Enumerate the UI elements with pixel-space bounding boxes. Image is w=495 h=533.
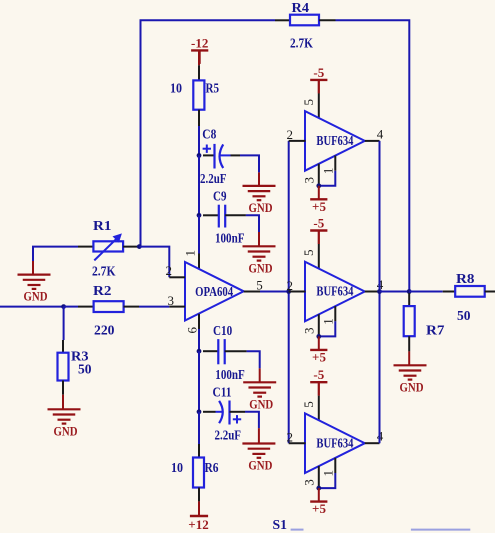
resistor R2: [93, 283, 124, 337]
wire C9 node to op-amp pin 1: [198, 215, 200, 269]
power +12: [188, 501, 208, 532]
pin 5 lead U3 middle: [318, 231, 320, 269]
pin number 4 U4 bottom: [377, 429, 384, 444]
svg-text:2.7K: 2.7K: [290, 36, 313, 51]
svg-text:100nF: 100nF: [215, 230, 245, 245]
pin 5 lead U2 top: [318, 80, 320, 118]
node pin3 junction U4 bottom: [316, 486, 321, 491]
wire C8 node to C9 node: [198, 155, 200, 215]
wire C11 to GND: [230, 412, 259, 444]
resistor R4: [290, 0, 319, 51]
svg-text:1: 1: [182, 250, 197, 257]
pin 3 lead U2 top: [318, 164, 320, 186]
wire C10 to GND: [247, 351, 260, 382]
svg-text:R6: R6: [205, 460, 219, 475]
node output bus junction: [377, 289, 382, 294]
resistor R7: [404, 306, 445, 337]
ground GND R1: [18, 261, 51, 304]
svg-text:BUF634: BUF634: [316, 284, 353, 299]
svg-text:GND: GND: [400, 379, 424, 394]
wire input net from left edge: [0, 306, 64, 308]
wire S1 stub left: [291, 529, 304, 531]
svg-text:2: 2: [287, 430, 294, 445]
svg-text:3: 3: [301, 479, 316, 486]
svg-text:R2: R2: [93, 283, 112, 298]
svg-text:2: 2: [287, 127, 294, 142]
wire R5 top pin lead: [198, 51, 200, 80]
pin number 5 op-amp: [256, 277, 263, 292]
pin number 3 op-amp: [168, 293, 175, 308]
wire R8 left pin lead: [443, 291, 456, 293]
svg-text:GND: GND: [249, 260, 273, 275]
svg-text:GND: GND: [24, 289, 48, 304]
svg-text:BUF634: BUF634: [316, 133, 353, 148]
pin 2 lead U4 bottom: [289, 442, 306, 444]
pin 2 lead U3 middle: [289, 291, 306, 293]
wire R1 right pin lead: [123, 246, 139, 248]
switch S1 label: [273, 517, 288, 532]
svg-text:6: 6: [184, 326, 199, 333]
svg-text:R7: R7: [426, 322, 445, 337]
pin number 1 U4 bottom: [321, 470, 336, 477]
capacitor C11: [203, 385, 241, 443]
pin 2 lead U2 top: [289, 140, 306, 142]
pin number 2 U3 middle: [287, 278, 294, 293]
svg-text:+5: +5: [312, 501, 326, 516]
pin 4 lead U3 middle: [365, 291, 380, 293]
svg-text:+5: +5: [312, 199, 326, 214]
wire feedback net right down to output node: [336, 20, 410, 291]
svg-text:1: 1: [321, 318, 336, 325]
pin number 4 U3 middle: [377, 277, 384, 292]
svg-text:10: 10: [170, 80, 182, 95]
pin number 4 U2 top: [377, 126, 384, 141]
node A R1/feedback junction: [137, 244, 142, 249]
svg-text:-5: -5: [313, 65, 324, 80]
svg-text:2: 2: [287, 278, 294, 293]
node C10 junction: [197, 349, 202, 354]
svg-text:2: 2: [166, 263, 173, 278]
wire buffer input bus: [288, 141, 290, 443]
svg-text:GND: GND: [249, 396, 273, 411]
wire R2 to op-amp pin 3: [139, 306, 169, 308]
power -5 of U4 bottom: [310, 367, 327, 396]
svg-text:C10: C10: [213, 323, 232, 338]
wire R3 bottom pin lead: [62, 381, 64, 410]
wire node to R8: [409, 291, 443, 293]
svg-text:220: 220: [94, 322, 115, 337]
node C11 junction: [197, 409, 202, 414]
wire R4 right pin lead: [319, 19, 336, 21]
resistor R6: [171, 458, 219, 488]
pin 2 op-amp lead: [169, 276, 185, 278]
buffer U2 top BUF634: [305, 111, 365, 171]
wire pin 1 to pin 3 U4 bottom: [319, 473, 336, 488]
pin number 1 op-amp: [182, 250, 197, 257]
svg-text:C11: C11: [213, 385, 232, 400]
ground GND C9: [243, 246, 276, 275]
node pin3 junction U3 middle: [316, 334, 321, 339]
wire R7 top pin lead: [408, 293, 410, 306]
svg-text:GND: GND: [54, 423, 78, 438]
svg-text:R5: R5: [206, 80, 220, 95]
resistor R5: [170, 80, 219, 109]
node pin3 junction U2 top: [316, 183, 321, 188]
wire buffer output bus: [379, 141, 381, 443]
pin 1 lead U4 bottom: [334, 458, 336, 473]
node input bus junction: [286, 289, 291, 294]
svg-text:2.2uF: 2.2uF: [215, 427, 242, 442]
wire R6 bottom pin lead: [198, 488, 200, 502]
svg-text:50: 50: [78, 362, 92, 377]
wire node B down to R3: [62, 307, 65, 353]
pin 1 lead U3 middle: [334, 306, 336, 321]
ground GND R7: [394, 365, 427, 394]
svg-text:BUF634: BUF634: [316, 435, 353, 450]
svg-text:1: 1: [321, 168, 336, 175]
capacitor C9: [203, 188, 246, 245]
svg-text:GND: GND: [248, 458, 272, 473]
svg-text:3: 3: [301, 328, 316, 335]
node output at R7: [407, 289, 412, 294]
svg-text:-12: -12: [191, 35, 208, 50]
svg-text:3: 3: [301, 177, 316, 184]
pin 3 lead U4 bottom: [318, 466, 320, 488]
pin 3 lead U3 middle: [318, 314, 320, 336]
svg-text:R4: R4: [292, 0, 310, 15]
ground GND C11: [242, 444, 275, 473]
pin 5 lead U4 bottom: [318, 382, 320, 420]
svg-text:R1: R1: [93, 218, 112, 233]
svg-text:100nF: 100nF: [215, 367, 245, 382]
pin number 2 op-amp: [166, 263, 173, 278]
pin 6 op-amp lead: [198, 314, 200, 351]
node C8 junction: [197, 153, 202, 158]
svg-text:R8: R8: [456, 271, 475, 286]
wire C8 to GND: [231, 155, 260, 186]
svg-text:1: 1: [321, 470, 336, 477]
pin number 5 U2 top: [301, 99, 316, 106]
pin 4 lead U2 top: [365, 140, 380, 142]
wire R7 bottom pin lead: [408, 336, 410, 365]
svg-text:5: 5: [301, 401, 316, 408]
power -12: [191, 35, 208, 64]
node B input junction: [61, 304, 66, 309]
buffer U4 bottom BUF634: [305, 413, 365, 473]
buffer U3 middle BUF634: [305, 262, 365, 322]
svg-text:OPA604: OPA604: [195, 284, 233, 299]
wire R2 right pin lead: [124, 306, 139, 308]
svg-text:C8: C8: [202, 127, 216, 142]
wire GND to R1: [33, 247, 78, 261]
ground GND C10: [243, 382, 276, 411]
svg-text:5: 5: [256, 277, 263, 292]
pin number 2 U2 top: [287, 127, 294, 142]
wire feedback net left/top from node A to R4: [141, 20, 276, 246]
wire R5 bottom pin lead: [198, 110, 200, 126]
pin 1 lead U2 top: [334, 156, 336, 171]
svg-text:S1: S1: [273, 517, 288, 532]
pin number 3 U2 top: [301, 177, 316, 184]
svg-text:+12: +12: [188, 517, 208, 532]
svg-text:3: 3: [168, 293, 175, 308]
pin number 1 U2 top: [321, 168, 336, 175]
wire pin 1 to pin 3 U2 top: [319, 171, 336, 186]
wire R5 to node C8: [198, 126, 200, 155]
pin number 2 U4 bottom: [287, 430, 294, 445]
power +5 of U2 top: [310, 186, 327, 214]
ground GND C8: [243, 186, 276, 215]
wire R2 left pin lead: [78, 306, 94, 308]
wire R8 right pin lead to edge: [485, 291, 495, 293]
svg-text:4: 4: [377, 126, 384, 141]
wire output bus to node: [380, 291, 410, 293]
svg-text:10: 10: [171, 460, 183, 475]
svg-text:GND: GND: [249, 200, 273, 215]
ground GND R3: [48, 409, 81, 438]
svg-text:2.2uF: 2.2uF: [200, 171, 227, 186]
wire C9 to GND: [246, 215, 259, 246]
power -5 of U2 top: [310, 65, 327, 94]
node C9 junction: [197, 213, 202, 218]
wire R4 left pin lead: [275, 19, 290, 21]
pin number 3 U4 bottom: [301, 479, 316, 486]
svg-text:50: 50: [457, 308, 471, 323]
svg-text:2.7K: 2.7K: [92, 263, 116, 278]
wire C10 node to C11 node: [198, 351, 200, 412]
wire op-amp output to buffer input bus: [260, 291, 289, 293]
resistor R3: [58, 349, 92, 381]
wire input to R2: [64, 306, 78, 308]
resistor R8: [455, 271, 485, 323]
pin number 6 op-amp: [184, 326, 199, 333]
wire pin 1 to pin 3 U3 middle: [319, 321, 336, 336]
pin number 3 U3 middle: [301, 328, 316, 335]
pin number 5 U3 middle: [301, 250, 316, 256]
op-amp U1 OPA604: [185, 262, 244, 321]
svg-text:-5: -5: [313, 367, 324, 382]
pin number 1 U3 middle: [321, 318, 336, 325]
wire node A to op-amp pin 2: [139, 247, 169, 278]
wire C11 node to R6: [198, 412, 200, 458]
pin 5 op-amp output lead: [244, 291, 260, 293]
svg-text:5: 5: [301, 99, 316, 106]
pin 3 op-amp lead: [169, 306, 185, 308]
pin number 5 U4 bottom: [301, 401, 316, 408]
power -5 of U3 middle: [310, 216, 327, 245]
power +5 of U3 middle: [310, 336, 327, 364]
svg-text:5: 5: [301, 250, 316, 256]
svg-text:+5: +5: [312, 350, 326, 365]
svg-text:-5: -5: [313, 216, 324, 231]
wire R1 left pin lead: [78, 246, 93, 248]
capacitor C10: [203, 323, 247, 382]
capacitor C8: [200, 127, 231, 187]
svg-text:C9: C9: [213, 188, 227, 203]
pin 4 lead U4 bottom: [365, 442, 380, 444]
power +5 of U4 bottom: [310, 488, 327, 516]
resistor R1 potentiometer: [92, 218, 123, 278]
wire S1 stub right: [411, 529, 470, 531]
